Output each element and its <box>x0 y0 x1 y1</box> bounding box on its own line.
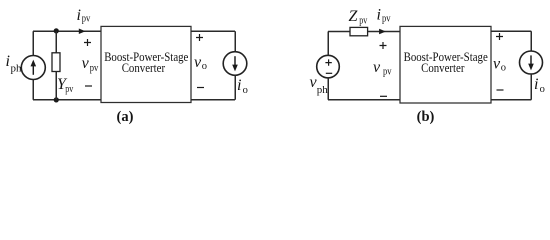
wire: (a) right rail upper <box>234 31 236 52</box>
svg-text:pv: pv <box>65 84 74 95</box>
wire: (a) left rail lower <box>32 79 34 99</box>
current source I_o (a) (circle with down arrow) <box>223 52 247 76</box>
svg-text:i: i <box>237 77 241 94</box>
node: junction dot bottom of Y_pv branch <box>54 97 59 102</box>
wire: (b) left rail upper <box>327 32 329 56</box>
current source I_o (b) (circle with down arrow) <box>520 51 543 74</box>
svg-text:o: o <box>540 84 545 95</box>
label v_pv (b) <box>373 59 392 78</box>
wire: (b) top rail source to Z_pv <box>328 31 350 33</box>
svg-text:pv: pv <box>90 63 99 74</box>
label i_pv (b) <box>377 6 392 24</box>
svg-text:i: i <box>6 53 10 70</box>
current direction arrow i_pv (a) <box>79 28 86 34</box>
wire: (a) bottom rail <box>33 99 101 101</box>
svg-text:(a): (a) <box>117 109 134 125</box>
svg-text:i: i <box>534 76 538 93</box>
polarity plus sign v_o (b) <box>496 33 503 40</box>
svg-text:pv: pv <box>82 14 91 25</box>
label Y_pv <box>57 76 74 95</box>
svg-text:v: v <box>373 59 381 76</box>
wire: (b) left rail lower <box>327 78 329 100</box>
polarity minus sign v_pv (b) <box>380 95 387 97</box>
admittance Y_pv branch wire upper <box>55 31 57 53</box>
svg-text:i: i <box>377 6 381 23</box>
svg-text:o: o <box>501 63 506 74</box>
svg-text:pv: pv <box>382 13 391 24</box>
polarity plus sign v_pv (b) <box>380 42 387 49</box>
svg-text:Z: Z <box>349 8 359 25</box>
label i_ph <box>6 53 23 75</box>
svg-text:pv: pv <box>383 67 392 78</box>
label v_ph <box>310 74 329 96</box>
converter block U1: Boost-Power-Stage Converter (a) <box>101 26 191 102</box>
label i_pv (a) <box>77 7 91 25</box>
impedance Z_pv body <box>350 27 368 35</box>
converter block U2: Boost-Power-Stage Converter (b) <box>400 26 491 103</box>
admittance Y_pv body <box>52 53 60 72</box>
polarity minus sign v_o (a) <box>197 87 204 89</box>
wire: (a) right rail lower <box>234 75 236 99</box>
svg-text:o: o <box>202 61 207 72</box>
svg-text:Converter: Converter <box>122 61 166 75</box>
label v_o (a) <box>194 54 207 72</box>
current source I_ph (circle with up arrow) <box>21 56 45 80</box>
label v_pv (a) <box>82 55 99 74</box>
svg-text:pv: pv <box>359 15 368 26</box>
svg-text:v: v <box>82 55 90 72</box>
wire: (b) right rail upper <box>530 31 532 51</box>
admittance Y_pv branch wire lower <box>55 72 57 100</box>
wire: (b) output top rail <box>491 30 531 32</box>
polarity minus sign v_o (b) <box>497 89 504 91</box>
svg-text:i: i <box>77 7 81 24</box>
node: junction dot top of Y_pv branch <box>54 28 59 33</box>
wire: (a) left rail upper <box>32 31 34 55</box>
svg-text:v: v <box>194 54 202 71</box>
current direction arrow i_pv (b) <box>379 29 386 35</box>
label i_o (b) <box>534 76 545 95</box>
svg-text:(b): (b) <box>417 109 435 125</box>
svg-text:o: o <box>243 85 248 96</box>
svg-text:ph: ph <box>317 84 329 96</box>
wire: (b) top rail Z_pv to converter <box>368 31 400 33</box>
polarity plus sign v_pv (a) <box>84 39 91 46</box>
wire: (a) output top rail <box>191 30 235 32</box>
svg-text:Converter: Converter <box>421 61 465 75</box>
voltage source V_ph (circle with plus/minus) <box>317 55 340 78</box>
polarity plus sign v_o (a) <box>196 34 203 41</box>
label v_o (b) <box>493 56 506 74</box>
label i_o (a) <box>237 77 248 96</box>
label Z_pv <box>349 8 368 26</box>
wire: (b) output bottom rail <box>491 99 531 101</box>
svg-text:ph: ph <box>11 63 23 75</box>
wire: (b) right rail lower <box>530 74 532 100</box>
wire: (a) output bottom rail <box>191 99 235 101</box>
polarity minus sign v_pv (a) <box>85 85 92 87</box>
wire: (b) bottom rail <box>328 99 400 101</box>
svg-text:v: v <box>493 56 501 73</box>
wire: (a) top rail from source to converter <box>33 30 101 32</box>
